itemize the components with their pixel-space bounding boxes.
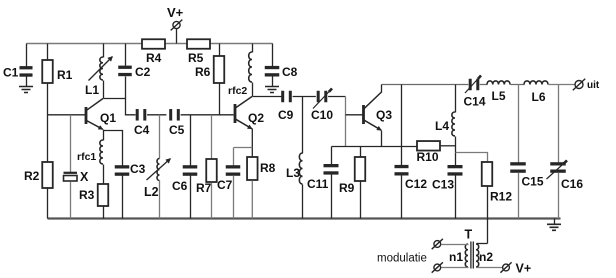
connector modulatie bottom: [432, 262, 443, 272]
capacitor C14 (variable): [464, 76, 486, 109]
svg-text:R2: R2: [24, 169, 40, 183]
svg-text:R6: R6: [195, 65, 211, 79]
svg-text:C9: C9: [278, 108, 294, 122]
label modulatie: [377, 253, 427, 265]
capacitor C3: [104, 131, 146, 219]
wire L5-L6 link: [480, 84, 488, 86]
crystal X: [64, 115, 90, 219]
transistor Q3: [362, 92, 392, 130]
svg-text:C7: C7: [217, 178, 233, 192]
ground at rail right end: [547, 219, 561, 231]
capacitor C7: [217, 148, 252, 219]
svg-text:V+: V+: [516, 262, 532, 276]
svg-text:C11: C11: [307, 177, 329, 191]
svg-text:uit: uit: [587, 80, 600, 91]
svg-text:R9: R9: [339, 181, 355, 195]
capacitor C9: [278, 91, 316, 122]
svg-text:L1: L1: [85, 83, 99, 97]
transformer winding n2: [476, 244, 493, 267]
svg-text:L3: L3: [286, 166, 300, 180]
svg-text:C13: C13: [432, 178, 454, 192]
capacitor C15: [510, 85, 544, 219]
resistor R10: [417, 141, 456, 164]
resistor R5: [187, 39, 210, 65]
inductor L6: [524, 81, 548, 104]
capacitor C11: [307, 147, 339, 219]
wire Q3 collector riser: [381, 85, 383, 93]
svg-text:C10: C10: [311, 108, 333, 122]
capacitor C2: [118, 44, 150, 99]
svg-text:Q1: Q1: [100, 111, 116, 125]
capacitor C16 (variable): [547, 85, 584, 219]
capacitor C8: [265, 44, 298, 87]
transistor Q2: [234, 97, 265, 129]
svg-text:L5: L5: [492, 89, 506, 103]
svg-text:rfc2: rfc2: [228, 85, 247, 97]
resistor R12: [456, 153, 513, 244]
capacitor C6: [172, 115, 197, 219]
svg-text:C5: C5: [169, 123, 185, 137]
svg-text:C14: C14: [464, 95, 486, 109]
svg-text:T: T: [465, 228, 473, 242]
inductor L2 (variable): [144, 115, 171, 219]
wire Q2 emitter: [251, 129, 253, 158]
wire Q3 emitter node: [332, 131, 418, 147]
svg-text:C4: C4: [134, 123, 150, 137]
wire L5 to L6 segment: [511, 84, 525, 86]
svg-text:R4: R4: [146, 51, 162, 65]
connector V+ supply: [167, 5, 184, 44]
svg-text:C2: C2: [135, 65, 151, 79]
transistor Q1: [85, 99, 117, 130]
capacitor C5: [169, 109, 234, 137]
resistor R8: [247, 157, 276, 219]
ground below C8: [265, 87, 279, 93]
inductor rfc1: [77, 130, 104, 185]
inductor L5: [487, 81, 510, 103]
capacitor C4: [134, 109, 166, 137]
inductor L3: [286, 97, 303, 219]
capacitor C12: [395, 85, 428, 219]
ground below C1: [19, 87, 33, 93]
wire n1 bottom lead: [442, 267, 469, 269]
inductor L1 (variable): [85, 44, 113, 99]
resistor R1: [42, 44, 72, 116]
svg-text:L2: L2: [144, 185, 159, 199]
wire bottom ground rail: [48, 217, 561, 219]
svg-text:R5: R5: [188, 51, 204, 65]
capacitor C1: [3, 44, 33, 87]
svg-text:Q2: Q2: [248, 111, 264, 125]
svg-text:C16: C16: [561, 177, 583, 191]
svg-text:R12: R12: [490, 190, 512, 204]
connector uit output: [573, 79, 600, 91]
svg-text:C15: C15: [522, 175, 544, 189]
resistor R6: [195, 44, 224, 115]
wire n2 top to R12: [477, 243, 488, 245]
wire Q3 base feed: [346, 97, 363, 147]
resistor R3: [79, 184, 108, 219]
svg-text:C8: C8: [282, 65, 298, 79]
wire Q1 collector node: [104, 99, 136, 115]
capacitor C10 (variable): [311, 89, 346, 123]
svg-text:R10: R10: [417, 150, 439, 164]
resistor R9: [339, 147, 365, 219]
svg-text:C1: C1: [3, 66, 19, 80]
wire Q1 base: [48, 114, 86, 116]
transformer winding n1: [449, 244, 468, 267]
wire Q3 collector rail: [382, 84, 469, 86]
wire top supply rail: [27, 43, 273, 45]
connector modulatie top: [432, 239, 443, 249]
resistor R7: [196, 115, 217, 219]
capacitor C13: [432, 165, 463, 219]
svg-text:R7: R7: [196, 181, 212, 195]
svg-text:Q3: Q3: [376, 108, 392, 122]
inductor rfc2: [228, 44, 253, 98]
transformer T core: [465, 228, 474, 269]
svg-text:L6: L6: [532, 90, 546, 104]
svg-text:rfc1: rfc1: [77, 151, 96, 163]
connector V+ bottom: [500, 262, 531, 276]
resistor R4: [142, 39, 165, 65]
svg-text:n1: n1: [449, 250, 463, 264]
wire Q2 collector: [253, 96, 282, 98]
svg-text:R1: R1: [57, 68, 73, 82]
wire n1 top lead: [442, 244, 469, 246]
svg-text:C12: C12: [405, 177, 427, 191]
wire L6 to output: [549, 84, 575, 86]
svg-text:V+: V+: [167, 5, 184, 20]
svg-text:R8: R8: [260, 161, 276, 175]
svg-text:modulatie: modulatie: [377, 253, 427, 265]
wire n2 bottom lead: [477, 267, 503, 269]
svg-text:X: X: [80, 170, 89, 184]
inductor L4: [435, 85, 456, 166]
resistor R2: [24, 116, 53, 219]
svg-text:C6: C6: [172, 179, 188, 193]
svg-text:R3: R3: [79, 188, 95, 202]
svg-text:L4: L4: [435, 119, 449, 133]
svg-text:C3: C3: [130, 162, 146, 176]
svg-text:n2: n2: [479, 250, 493, 264]
